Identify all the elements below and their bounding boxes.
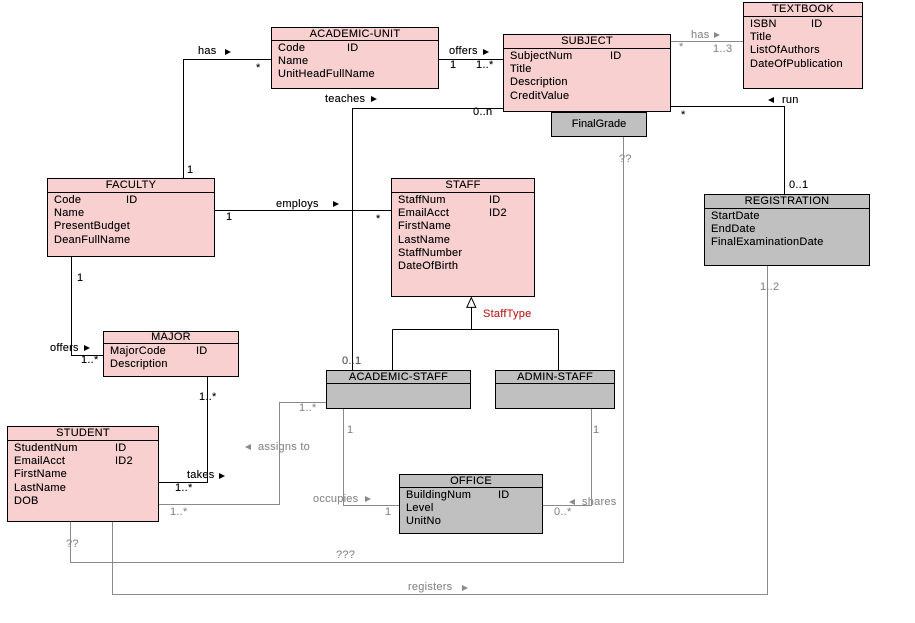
label 1..* near ACADEMIC-STAFF (gray)	[299, 402, 317, 414]
label * near STAFF	[376, 213, 381, 225]
wire ??? : FinalGrade to STUDENT (gray)	[71, 137, 624, 563]
wire takes: MAJOR to STUDENT	[159, 377, 208, 483]
wire offers: FACULTY to MAJOR	[72, 257, 104, 356]
label 1 near OFFICE (gray)	[385, 506, 391, 518]
label occupies (gray)	[313, 493, 358, 505]
wire teaches: SUBJECT to ACADEMIC-STAFF	[353, 109, 504, 371]
label employs	[276, 198, 319, 210]
label 0..n near SUBJECT	[473, 106, 492, 118]
label 1..2 near REGISTRATION (gray)	[760, 281, 779, 293]
label has (FACULTY-ACADEMIC-UNIT)	[198, 45, 217, 57]
entity REGISTRATION	[704, 194, 870, 266]
label * near SUBJECT (run)	[681, 109, 686, 121]
wire employs: FACULTY to STAFF	[215, 210, 391, 212]
label StaffType (red)	[483, 308, 532, 320]
label registers (gray)	[408, 581, 452, 593]
label offers (ACADEMIC-UNIT-SUBJECT)	[449, 45, 478, 57]
entity ACADEMIC-STAFF	[326, 370, 471, 409]
entity ADMIN-STAFF	[495, 370, 615, 409]
label 1..* near MAJOR	[81, 354, 99, 366]
label ??? on horizontal wire (gray)	[336, 549, 355, 561]
entity OFFICE	[399, 474, 543, 534]
label 0..1 near ACADEMIC-STAFF	[342, 355, 361, 367]
wire offers: ACADEMIC-UNIT to SUBJECT	[439, 59, 503, 61]
entity MAJOR	[103, 331, 239, 377]
label run	[768, 97, 774, 103]
label takes	[187, 469, 215, 481]
label 1..3 near TEXTBOOK (gray)	[713, 43, 732, 55]
entity STAFF	[391, 178, 535, 297]
wire generalization stem below triangle	[393, 308, 559, 371]
entity STUDENT	[7, 426, 159, 522]
label 1..* near STUDENT (takes)	[175, 482, 193, 494]
label 1..* near STUDENT (gray)	[170, 506, 188, 518]
association-class box FinalGrade	[551, 112, 647, 137]
label has (SUBJECT-TEXTBOOK, gray)	[691, 29, 710, 41]
label 1..* near SUBJECT	[476, 59, 494, 71]
wire occupies: ACADEMIC-STAFF to OFFICE (gray)	[344, 409, 400, 506]
entity SUBJECT	[503, 34, 671, 112]
label 0..* near OFFICE (gray)	[554, 506, 572, 518]
label 1..* near MAJOR bottom	[199, 391, 217, 403]
label * near SUBJECT (gray)	[679, 41, 684, 53]
label shares (gray)	[569, 499, 575, 505]
label assigns to (gray)	[245, 444, 251, 450]
wire has: SUBJECT to TEXTBOOK (gray)	[671, 41, 743, 43]
label 1 near FACULTY	[226, 211, 232, 223]
label teaches	[325, 93, 365, 105]
label 0..1 near REGISTRATION	[789, 179, 808, 191]
label 1 below ACADEMIC-STAFF (gray)	[347, 424, 353, 436]
generalization triangle StaffType	[467, 298, 476, 308]
label 1 near ACADEMIC-UNIT	[450, 59, 456, 71]
wire has: FACULTY to ACADEMIC-UNIT	[184, 60, 272, 179]
entity ACADEMIC-UNIT	[271, 27, 439, 89]
label * near ACADEMIC-UNIT	[256, 62, 261, 74]
label 1 below ADMIN-STAFF (gray)	[593, 424, 599, 436]
wire shares: ADMIN-STAFF to OFFICE (gray)	[543, 409, 592, 506]
label offers (FACULTY-MAJOR)	[50, 342, 79, 354]
label ?? near STUDENT bottom (gray)	[66, 538, 79, 550]
wire assigns to: ACADEMIC-STAFF to STUDENT (gray)	[159, 403, 326, 505]
wire registers: STUDENT to REGISTRATION (gray)	[113, 266, 768, 595]
label 1 near FACULTY bottom	[77, 272, 83, 284]
label ?? near FinalGrade (gray)	[619, 153, 632, 165]
entity TEXTBOOK	[743, 2, 863, 89]
wire run: SUBJECT to REGISTRATION	[671, 107, 785, 195]
label 1 near FACULTY top	[187, 164, 193, 176]
entity FACULTY	[47, 178, 215, 257]
